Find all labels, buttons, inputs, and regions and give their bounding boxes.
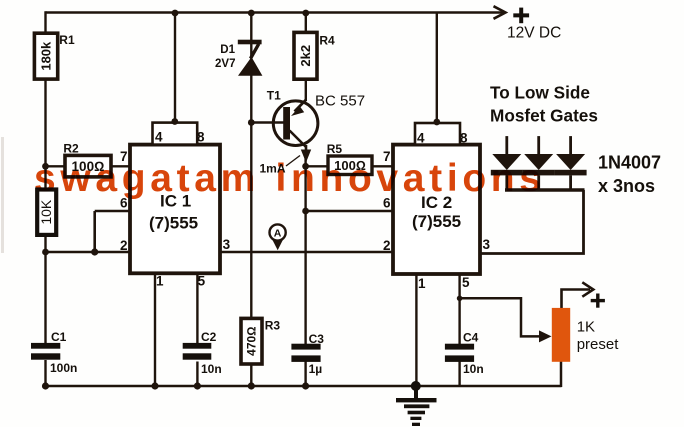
resistor R5 100ohm <box>327 142 372 175</box>
junction rail pin1 IC1 <box>151 382 158 389</box>
junction rail C3 <box>302 382 309 389</box>
svg-text:1µ: 1µ <box>309 362 323 376</box>
junction T1 base <box>248 119 255 126</box>
IC1 pin labels <box>120 130 231 289</box>
svg-text:To Low Side: To Low Side <box>490 83 590 103</box>
capacitor C1 100n <box>31 330 77 375</box>
svg-text:2: 2 <box>120 238 128 253</box>
svg-text:R1: R1 <box>59 33 75 47</box>
resistor R4 2k2 <box>294 32 335 79</box>
wire R5 row to IC2 pin7 <box>306 165 393 167</box>
svg-text:A: A <box>274 227 282 239</box>
svg-text:(7)555: (7)555 <box>149 214 198 233</box>
diode D2 1N4007 <box>491 136 523 190</box>
svg-text:R4: R4 <box>319 34 335 48</box>
IC1 top notch <box>153 123 198 145</box>
IC2 top notch <box>415 123 460 145</box>
svg-text:2k2: 2k2 <box>298 45 313 67</box>
svg-text:Mosfet Gates: Mosfet Gates <box>490 106 598 126</box>
svg-text:preset: preset <box>577 336 620 353</box>
svg-text:D1: D1 <box>220 44 235 56</box>
wire diode cathode bus <box>505 188 585 192</box>
wire D1/R3 vertical line <box>250 11 252 387</box>
svg-text:T1: T1 <box>267 88 281 102</box>
wire IC1 pin5 / C2 branch <box>196 273 198 387</box>
wire preset top to + output <box>562 282 594 308</box>
wire to IC2 pin6 <box>306 210 393 212</box>
node A marker <box>270 224 286 250</box>
svg-text:BC 557: BC 557 <box>315 93 365 110</box>
svg-text:180k: 180k <box>39 41 54 71</box>
diode D3 1N4007 <box>523 136 555 190</box>
wire IC1 pin6 link <box>95 211 130 252</box>
svg-text:1K: 1K <box>577 319 595 336</box>
scan smudge left edge <box>1 137 4 253</box>
svg-text:3: 3 <box>483 237 491 252</box>
svg-text:10K: 10K <box>38 199 54 225</box>
svg-text:10n: 10n <box>201 362 222 376</box>
junction IC2 notch <box>433 119 440 126</box>
potentiometer 10K box <box>37 190 56 235</box>
preset 1K <box>552 308 619 362</box>
junction rail C1 <box>42 382 49 389</box>
wire left vertical rail (R1/10K/C1 branch) <box>44 11 46 387</box>
junction D1 supply <box>248 10 255 17</box>
junction pin2 left <box>42 249 49 256</box>
svg-text:2: 2 <box>383 238 391 253</box>
watermark swagatam innovations <box>34 157 541 200</box>
svg-text:8: 8 <box>460 131 468 146</box>
capacitor C3 1u <box>291 332 324 376</box>
diode D4 1N4007 <box>555 136 587 190</box>
wire IC1 pin1 to ground rail <box>154 273 156 387</box>
junction IC1 notch <box>171 118 178 125</box>
ground symbol <box>396 386 437 426</box>
svg-text:C4: C4 <box>463 331 479 345</box>
junction pin6 IC2 <box>302 208 309 215</box>
IC2 body <box>393 145 480 274</box>
junction rail ground <box>411 381 421 391</box>
svg-text:R2: R2 <box>63 141 79 155</box>
svg-text:1: 1 <box>156 274 164 289</box>
plus sign preset output <box>591 294 605 308</box>
svg-text:R5: R5 <box>327 142 343 156</box>
wire bottom ground rail <box>46 385 562 388</box>
1mA annotation <box>260 156 301 176</box>
IC2 pin labels <box>383 131 491 292</box>
svg-text:C3: C3 <box>309 332 325 346</box>
capacitor C2 10n <box>183 330 222 376</box>
wire top +12V rail <box>46 6 506 19</box>
resistor R2 100ohm <box>63 141 111 177</box>
wire IC2 pin1 to ground rail <box>415 274 417 387</box>
junction R4 supply <box>302 10 309 17</box>
svg-text:C2: C2 <box>201 330 217 344</box>
svg-text:5: 5 <box>198 274 206 289</box>
svg-text:(7)555: (7)555 <box>412 212 461 231</box>
label 12V DC <box>507 25 561 42</box>
capacitor C4 10n <box>445 331 484 377</box>
resistor R1 180k <box>34 33 75 79</box>
plus sign 12V <box>513 8 529 24</box>
svg-text:2V7: 2V7 <box>215 58 235 70</box>
svg-text:5: 5 <box>462 275 470 290</box>
label 1N4007 x 3nos <box>598 153 661 197</box>
svg-text:10n: 10n <box>463 362 484 376</box>
wire R4/T1-collector/C3 vertical line <box>304 11 307 387</box>
svg-text:100n: 100n <box>50 361 77 375</box>
svg-text:x 3nos: x 3nos <box>598 176 655 196</box>
svg-text:4: 4 <box>417 131 425 146</box>
wire IC2 pin5 to preset wiper <box>460 298 552 342</box>
junction pin6-pin2 <box>91 248 98 255</box>
wire preset bottom return <box>560 362 563 388</box>
wire pin2 / IC1 pin3 to IC2 pin2 long run <box>46 251 394 253</box>
svg-text:12V DC: 12V DC <box>507 25 561 42</box>
junction IC2 pin5 <box>457 296 463 302</box>
svg-text:3: 3 <box>223 237 231 252</box>
junction T1 collector R5 <box>302 163 309 170</box>
wire IC2 pin3 to diode bus <box>480 190 584 254</box>
transistor T1 BC557 <box>267 88 365 162</box>
svg-text:C1: C1 <box>51 330 67 344</box>
svg-text:8: 8 <box>197 130 205 145</box>
wire IC1 top supply stub <box>174 13 176 124</box>
junction R2 left <box>42 163 49 170</box>
junction rail R3 <box>248 382 255 389</box>
wire T1 base from D1 node <box>251 121 283 123</box>
label To Low Side Mosfet Gates <box>490 83 598 126</box>
svg-text:4: 4 <box>155 130 163 145</box>
junction IC1 supply <box>172 10 179 17</box>
IC1 body <box>130 145 220 274</box>
junction rail C2 <box>194 382 201 389</box>
resistor R3 470ohm <box>241 318 280 364</box>
svg-text:1: 1 <box>418 276 426 291</box>
svg-text:R3: R3 <box>265 318 281 332</box>
zener diode D1 2V7 <box>215 40 262 76</box>
svg-text:1N4007: 1N4007 <box>598 153 661 173</box>
wire IC2 pin5 / C4 branch <box>458 274 460 387</box>
svg-text:470Ω: 470Ω <box>245 327 259 356</box>
wire R2 to IC1 pin7 <box>46 165 131 167</box>
wire IC2 top supply stub <box>436 13 438 124</box>
